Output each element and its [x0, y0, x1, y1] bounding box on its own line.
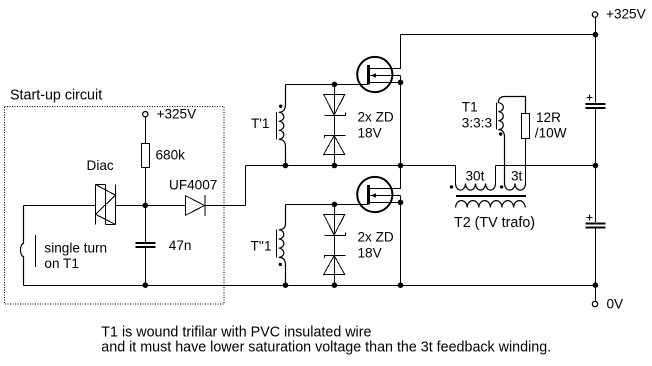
node junction zener bottom	[332, 163, 338, 169]
svg-text:+325V: +325V	[606, 6, 646, 21]
wire right rail between cap1 and midpoint	[595, 109, 597, 166]
capacitor C1 top electrolytic	[586, 95, 606, 109]
transformer T1 primary winding	[462, 97, 526, 185]
node junction T''1 bottom	[283, 282, 289, 288]
wire Q2 source to bottom bus	[400, 203, 402, 286]
svg-text:2x ZD: 2x ZD	[358, 110, 394, 125]
node junction Q2 source	[398, 200, 404, 206]
svg-text:T'1: T'1	[251, 116, 269, 131]
wire startup link up to midpoint bus	[245, 166, 247, 206]
svg-text:Start-up circuit: Start-up circuit	[10, 88, 102, 104]
node junction bottom bus at Q2 source	[398, 282, 404, 288]
wire 12R bottom to 3t	[525, 139, 527, 185]
node junction zener2 bottom	[332, 282, 338, 288]
node junction T'1 bottom	[283, 163, 289, 169]
svg-text:Diac: Diac	[87, 158, 114, 173]
node junction zener top	[332, 82, 338, 88]
node junction top rail	[593, 32, 599, 38]
single turn winding on T1	[21, 206, 108, 286]
node +325V terminal startup	[143, 107, 197, 122]
node junction bottom rail	[593, 282, 599, 288]
wire top gate line	[286, 84, 368, 86]
svg-text:47n: 47n	[169, 238, 192, 253]
svg-text:/10W: /10W	[535, 125, 567, 140]
wire diac left lead	[24, 205, 96, 207]
svg-text:T2 (TV trafo): T2 (TV trafo)	[454, 215, 535, 231]
svg-text:T1: T1	[462, 100, 478, 115]
wire capacitor to bottom bus	[145, 248, 147, 286]
wire bottom gate line	[286, 204, 368, 206]
svg-text:2x ZD: 2x ZD	[358, 230, 394, 245]
svg-text:18V: 18V	[358, 245, 382, 260]
wire top rail horizontal	[401, 34, 596, 36]
startup dashed enclosure	[5, 107, 225, 305]
diode UF4007	[146, 177, 246, 216]
svg-text:+325V: +325V	[157, 107, 197, 122]
capacitor C3 47n	[136, 238, 192, 253]
svg-text:680k: 680k	[156, 148, 186, 163]
svg-text:T''1: T''1	[251, 239, 272, 254]
wire stub to 0V terminal	[595, 286, 597, 302]
resistor 680k	[142, 144, 186, 168]
svg-text:single turn: single turn	[44, 240, 107, 255]
svg-text:on T1: on T1	[44, 256, 79, 271]
transformer T2 core	[456, 195, 526, 197]
zener pair bottom 2x ZD 18V	[324, 205, 394, 286]
node junction 47n bottom	[143, 282, 149, 288]
transformer winding T'1	[251, 85, 286, 166]
svg-text:12R: 12R	[536, 110, 561, 125]
transformer T2 secondary winding	[456, 201, 526, 208]
node junction zener2 top	[332, 202, 338, 208]
zener pair top 2x ZD 18V	[324, 85, 394, 166]
resistor 12R/10W	[522, 110, 567, 141]
wire right rail lower	[595, 229, 597, 286]
svg-text:0V: 0V	[607, 297, 624, 312]
mosfet Q2 bottom	[357, 166, 400, 213]
wire bottom bus	[24, 285, 596, 287]
wire Q1 source to midpoint bus	[400, 83, 402, 166]
svg-text:3t: 3t	[511, 168, 523, 183]
svg-text:T1 is wound trifilar with PVC: T1 is wound trifilar with PVC insulated …	[101, 324, 371, 340]
wire right rail upper	[595, 35, 597, 103]
wire diac node down to capacitor	[145, 206, 147, 243]
wire terminal stub to top rail	[595, 17, 597, 34]
node junction diac node	[143, 203, 149, 209]
svg-text:UF4007: UF4007	[169, 177, 217, 192]
svg-text:3:3:3: 3:3:3	[462, 115, 492, 130]
svg-text:30t: 30t	[466, 168, 485, 183]
wire midpoint bus left segment	[246, 165, 456, 167]
node junction cap midpoint	[593, 163, 599, 169]
transformer T2 winding 3t	[500, 168, 526, 190]
wire right rail between midpoint and cap2	[595, 166, 597, 223]
transformer T2 winding 30t	[450, 166, 496, 191]
transformer winding T''1	[251, 205, 286, 286]
node +325V terminal top right	[592, 6, 645, 21]
wire midpoint bus right segment	[496, 165, 596, 167]
capacitor C2 bottom electrolytic	[586, 215, 606, 228]
node junction midpoint at Q1 source	[398, 163, 404, 169]
node 0V terminal	[592, 297, 623, 312]
diac D2	[96, 185, 116, 225]
node junction Q1 source	[398, 80, 404, 86]
svg-text:18V: 18V	[358, 125, 382, 140]
wire terminal to resistor	[145, 117, 147, 144]
wire diac right lead	[116, 205, 146, 207]
wire resistor to diac node	[145, 168, 147, 206]
svg-text:and it must have lower saturat: and it must have lower saturation voltag…	[101, 339, 551, 355]
mosfet Q1 top	[357, 35, 400, 93]
